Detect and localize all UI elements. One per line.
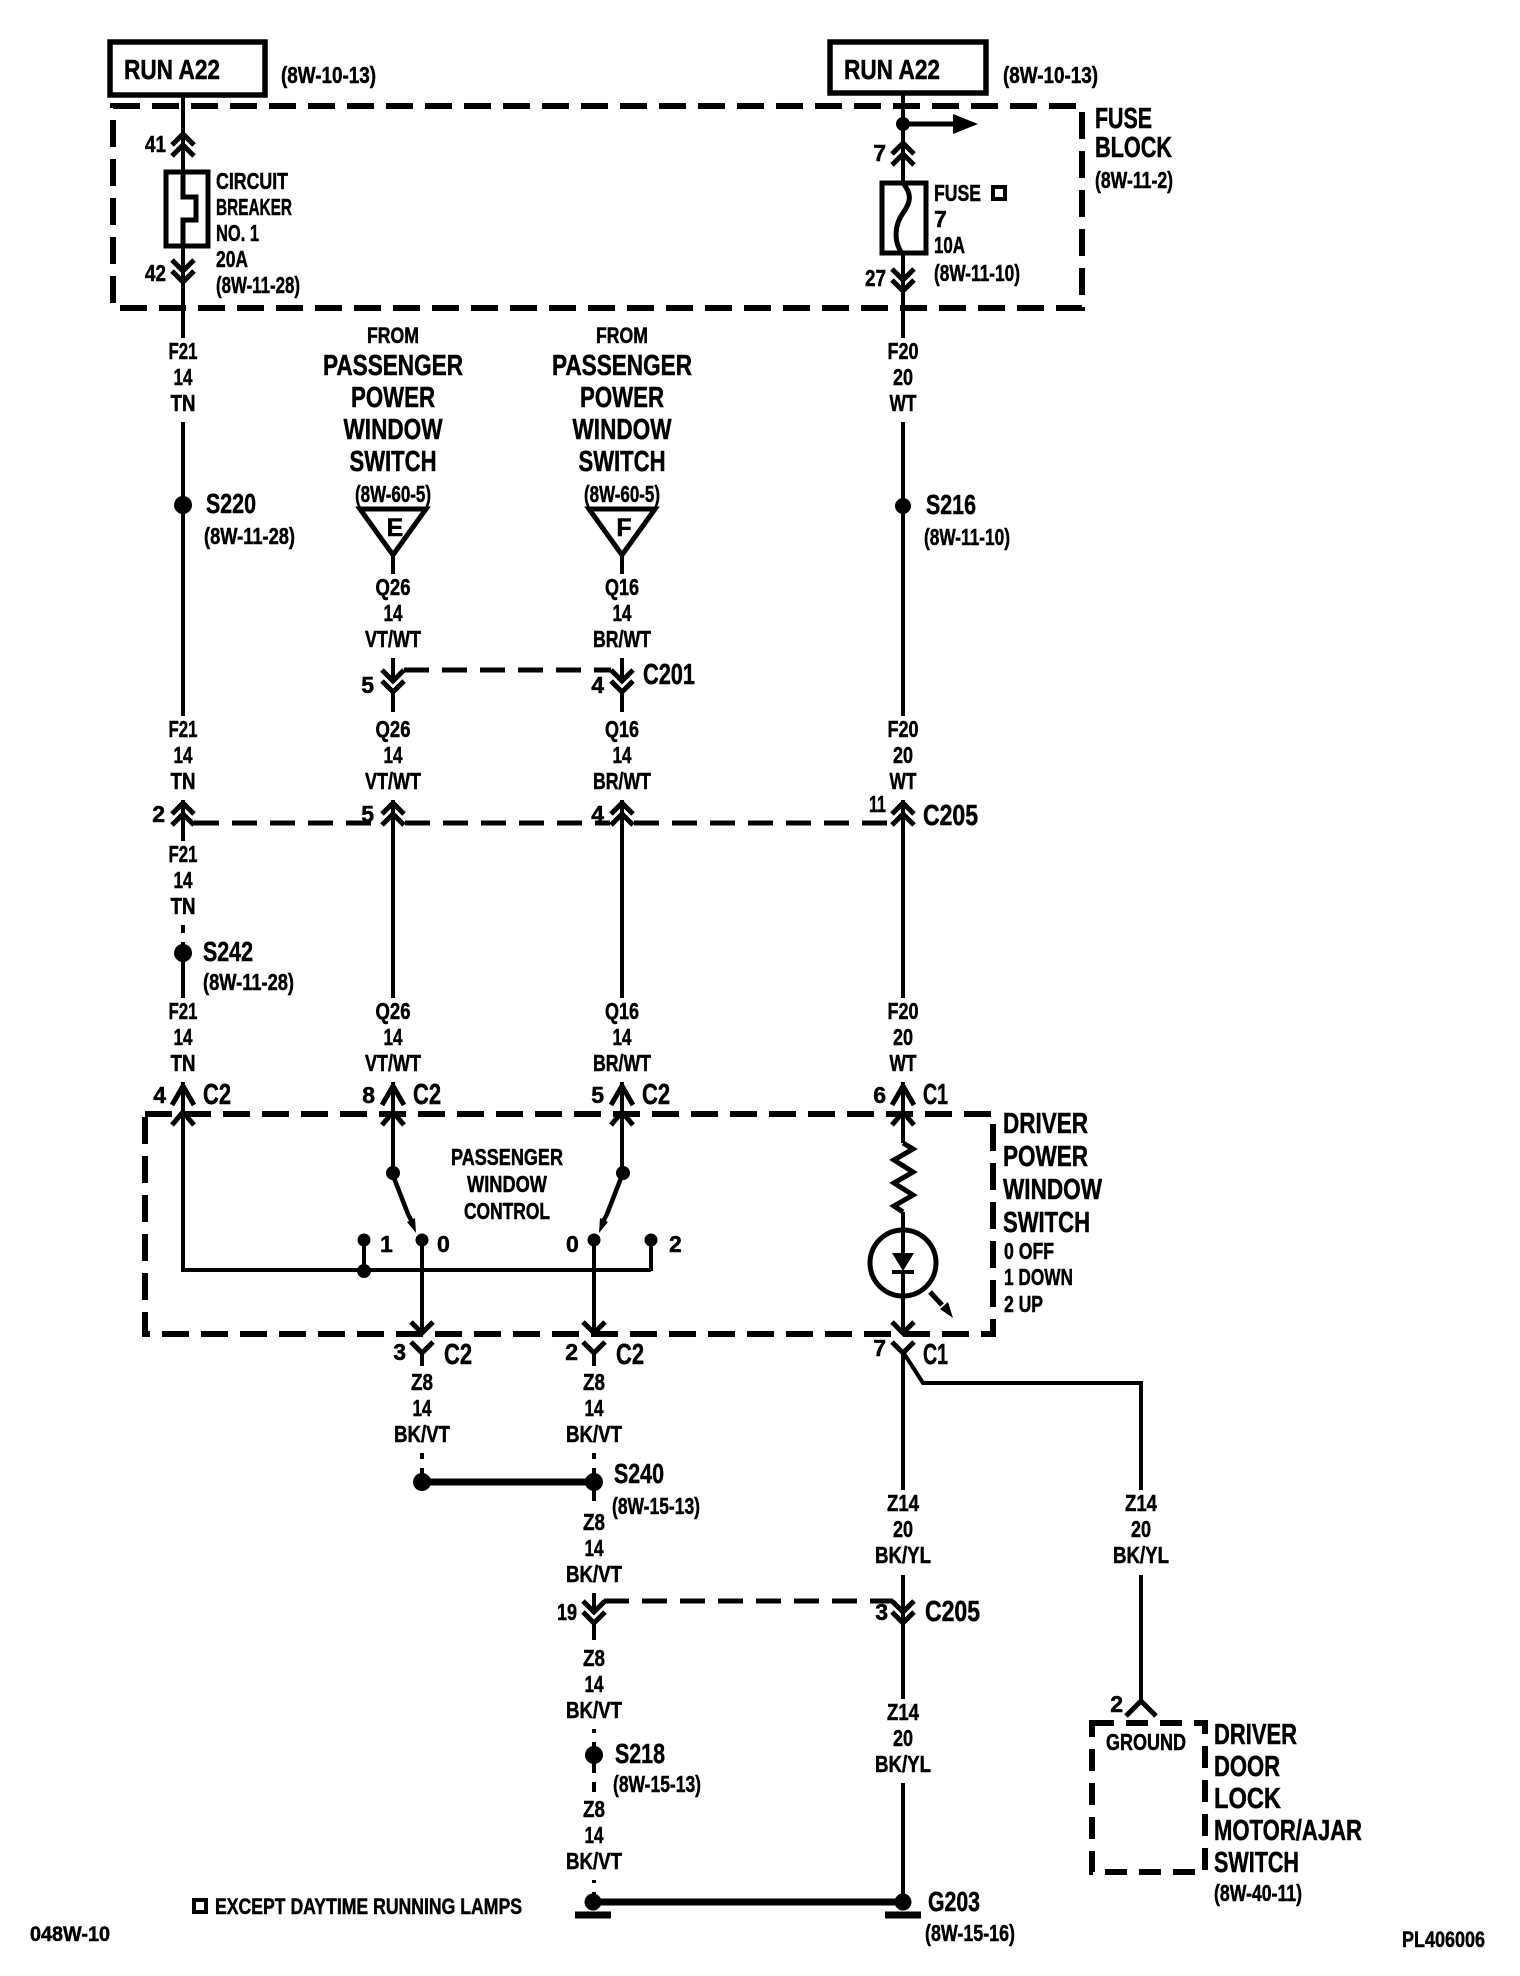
svg-text:C205: C205 — [925, 1596, 980, 1628]
svg-text:WT: WT — [890, 1050, 917, 1076]
svg-text:Z8: Z8 — [583, 1645, 605, 1671]
svg-text:Q16: Q16 — [605, 998, 639, 1024]
svg-text:(8W-11-28): (8W-11-28) — [216, 272, 300, 298]
svg-text:048W-10: 048W-10 — [30, 1923, 110, 1946]
svg-text:F: F — [616, 514, 631, 542]
svg-text:BLOCK: BLOCK — [1095, 132, 1172, 164]
svg-text:GROUND: GROUND — [1106, 1729, 1186, 1755]
svg-text:20A: 20A — [216, 246, 248, 272]
svg-text:BK/YL: BK/YL — [875, 1751, 931, 1777]
svg-text:C205: C205 — [923, 800, 978, 832]
svg-text:FROM: FROM — [596, 323, 648, 348]
svg-text:BK/VT: BK/VT — [566, 1421, 622, 1447]
svg-text:19: 19 — [557, 1599, 577, 1625]
svg-text:Z8: Z8 — [583, 1369, 605, 1395]
svg-text:Q16: Q16 — [605, 574, 639, 600]
svg-text:14: 14 — [174, 1024, 193, 1050]
svg-text:5: 5 — [361, 801, 374, 827]
svg-text:BK/VT: BK/VT — [394, 1421, 450, 1447]
svg-text:LOCK: LOCK — [1214, 1783, 1281, 1815]
svg-text:(8W-40-11): (8W-40-11) — [1214, 1880, 1302, 1906]
svg-text:TN: TN — [171, 390, 196, 416]
svg-text:(8W-11-2): (8W-11-2) — [1095, 167, 1173, 193]
svg-text:14: 14 — [613, 742, 632, 768]
svg-text:PASSENGER: PASSENGER — [323, 350, 463, 382]
svg-text:(8W-11-10): (8W-11-10) — [934, 260, 1020, 286]
svg-text:5: 5 — [361, 672, 374, 698]
svg-text:SWITCH: SWITCH — [1214, 1847, 1299, 1879]
svg-text:SWITCH: SWITCH — [1003, 1207, 1090, 1239]
svg-text:2: 2 — [565, 1339, 578, 1365]
svg-text:14: 14 — [174, 364, 193, 390]
svg-text:Z8: Z8 — [583, 1796, 605, 1822]
svg-text:14: 14 — [613, 1024, 632, 1050]
svg-text:WINDOW: WINDOW — [573, 414, 672, 446]
svg-text:F20: F20 — [888, 998, 919, 1024]
svg-text:8: 8 — [362, 1082, 375, 1108]
svg-text:14: 14 — [384, 742, 403, 768]
svg-text:14: 14 — [413, 1395, 432, 1421]
svg-text:7: 7 — [873, 140, 886, 166]
svg-text:20: 20 — [893, 1024, 913, 1050]
svg-text:CIRCUIT: CIRCUIT — [216, 168, 288, 194]
svg-text:TN: TN — [171, 768, 196, 794]
svg-text:C2: C2 — [203, 1079, 231, 1111]
svg-text:BK/VT: BK/VT — [566, 1561, 622, 1587]
svg-text:SWITCH: SWITCH — [350, 446, 437, 478]
svg-text:SWITCH: SWITCH — [579, 446, 666, 478]
svg-text:BR/WT: BR/WT — [593, 1050, 651, 1076]
svg-text:S216: S216 — [926, 489, 976, 520]
svg-text:2: 2 — [1110, 1691, 1123, 1717]
svg-text:WINDOW: WINDOW — [344, 414, 443, 446]
svg-text:20: 20 — [893, 364, 913, 390]
svg-text:PASSENGER: PASSENGER — [552, 350, 692, 382]
svg-text:POWER: POWER — [1003, 1141, 1088, 1173]
svg-text:BR/WT: BR/WT — [593, 626, 651, 652]
svg-text:BREAKER: BREAKER — [216, 194, 292, 220]
svg-text:DRIVER: DRIVER — [1003, 1108, 1088, 1140]
svg-text:42: 42 — [145, 260, 166, 286]
svg-text:(8W-60-5): (8W-60-5) — [355, 481, 431, 507]
svg-text:TN: TN — [171, 1050, 196, 1076]
svg-text:C1: C1 — [923, 1339, 948, 1371]
svg-text:CONTROL: CONTROL — [464, 1198, 550, 1224]
svg-text:Q26: Q26 — [376, 998, 411, 1024]
svg-text:6: 6 — [873, 1082, 886, 1108]
svg-text:S220: S220 — [206, 488, 256, 519]
svg-text:F21: F21 — [169, 841, 198, 867]
svg-text:F21: F21 — [169, 338, 198, 364]
svg-text:4: 4 — [591, 801, 604, 827]
svg-text:RUN A22: RUN A22 — [124, 54, 220, 85]
svg-text:TN: TN — [171, 893, 196, 919]
svg-text:DOOR: DOOR — [1214, 1751, 1280, 1783]
svg-text:WT: WT — [890, 768, 917, 794]
svg-text:DRIVER: DRIVER — [1214, 1719, 1297, 1751]
svg-text:WINDOW: WINDOW — [1003, 1174, 1102, 1206]
svg-text:7: 7 — [873, 1335, 886, 1361]
svg-text:S242: S242 — [203, 936, 253, 967]
svg-text:POWER: POWER — [351, 382, 435, 414]
svg-text:BK/YL: BK/YL — [875, 1542, 931, 1568]
svg-text:20: 20 — [893, 1725, 913, 1751]
svg-text:2: 2 — [669, 1231, 682, 1257]
svg-text:(8W-15-16): (8W-15-16) — [925, 1920, 1015, 1946]
svg-text:BK/VT: BK/VT — [566, 1697, 622, 1723]
svg-text:G203: G203 — [928, 1886, 980, 1917]
svg-text:BR/WT: BR/WT — [593, 768, 651, 794]
svg-text:14: 14 — [585, 1535, 604, 1561]
svg-text:0 OFF: 0 OFF — [1004, 1238, 1054, 1264]
svg-text:(8W-15-13): (8W-15-13) — [612, 1493, 700, 1519]
svg-text:14: 14 — [613, 600, 632, 626]
svg-text:2 UP: 2 UP — [1004, 1291, 1043, 1317]
svg-text:C2: C2 — [642, 1079, 670, 1111]
svg-text:Q26: Q26 — [376, 574, 411, 600]
svg-text:C1: C1 — [923, 1079, 948, 1111]
svg-text:Z8: Z8 — [583, 1509, 605, 1535]
svg-text:FUSE: FUSE — [934, 180, 981, 206]
svg-text:1 DOWN: 1 DOWN — [1004, 1264, 1073, 1290]
svg-text:FROM: FROM — [367, 323, 419, 348]
svg-text:Z14: Z14 — [887, 1699, 919, 1725]
svg-text:0: 0 — [566, 1231, 579, 1257]
svg-text:VT/WT: VT/WT — [365, 1050, 421, 1076]
svg-text:(8W-11-10): (8W-11-10) — [924, 524, 1010, 550]
svg-text:C2: C2 — [413, 1079, 441, 1111]
svg-text:Q26: Q26 — [376, 716, 411, 742]
svg-text:WT: WT — [890, 390, 917, 416]
svg-text:14: 14 — [174, 867, 193, 893]
svg-text:MOTOR/AJAR: MOTOR/AJAR — [1214, 1815, 1362, 1847]
svg-text:7: 7 — [934, 206, 947, 232]
svg-text:NO. 1: NO. 1 — [216, 220, 259, 246]
svg-text:3: 3 — [393, 1339, 406, 1365]
svg-text:FUSE: FUSE — [1095, 103, 1152, 135]
svg-text:F20: F20 — [888, 716, 919, 742]
svg-text:PL406006: PL406006 — [1402, 1927, 1485, 1952]
svg-text:20: 20 — [1131, 1516, 1151, 1542]
svg-text:EXCEPT DAYTIME RUNNING LAMPS: EXCEPT DAYTIME RUNNING LAMPS — [215, 1894, 522, 1919]
svg-text:27: 27 — [865, 265, 886, 291]
svg-text:(8W-10-13): (8W-10-13) — [281, 62, 376, 88]
svg-text:Q16: Q16 — [605, 716, 639, 742]
svg-text:14: 14 — [384, 600, 403, 626]
svg-text:RUN A22: RUN A22 — [844, 54, 940, 85]
svg-text:41: 41 — [145, 131, 166, 157]
svg-text:1: 1 — [380, 1231, 393, 1257]
svg-text:F21: F21 — [169, 716, 198, 742]
svg-text:F20: F20 — [888, 338, 919, 364]
svg-text:4: 4 — [591, 672, 604, 698]
svg-text:E: E — [387, 514, 404, 542]
svg-text:C2: C2 — [616, 1339, 644, 1371]
svg-text:BK/VT: BK/VT — [566, 1848, 622, 1874]
svg-text:20: 20 — [893, 1516, 913, 1542]
svg-text:VT/WT: VT/WT — [365, 768, 421, 794]
svg-text:5: 5 — [591, 1082, 604, 1108]
svg-text:(8W-10-13): (8W-10-13) — [1003, 62, 1098, 88]
svg-text:F21: F21 — [169, 998, 198, 1024]
svg-text:20: 20 — [893, 742, 913, 768]
svg-text:Z14: Z14 — [887, 1490, 919, 1516]
svg-text:2: 2 — [152, 801, 165, 827]
svg-text:0: 0 — [437, 1231, 450, 1257]
svg-text:4: 4 — [153, 1082, 166, 1108]
svg-text:C2: C2 — [444, 1339, 472, 1371]
svg-text:Z8: Z8 — [411, 1369, 433, 1395]
svg-text:S218: S218 — [615, 1738, 665, 1769]
svg-text:S240: S240 — [614, 1458, 664, 1489]
svg-text:(8W-11-28): (8W-11-28) — [204, 523, 295, 549]
svg-text:(8W-15-13): (8W-15-13) — [613, 1771, 701, 1797]
svg-text:14: 14 — [174, 742, 193, 768]
svg-text:14: 14 — [585, 1822, 604, 1848]
svg-text:(8W-60-5): (8W-60-5) — [584, 481, 660, 507]
svg-text:14: 14 — [585, 1671, 604, 1697]
svg-text:(8W-11-28): (8W-11-28) — [203, 969, 294, 995]
svg-text:PASSENGER: PASSENGER — [451, 1144, 563, 1170]
svg-text:10A: 10A — [934, 232, 965, 258]
svg-text:3: 3 — [875, 1599, 888, 1625]
svg-text:Z14: Z14 — [1125, 1490, 1157, 1516]
svg-text:11: 11 — [869, 791, 886, 817]
svg-text:VT/WT: VT/WT — [365, 626, 421, 652]
svg-text:14: 14 — [585, 1395, 604, 1421]
svg-text:WINDOW: WINDOW — [467, 1171, 547, 1197]
svg-text:POWER: POWER — [580, 382, 664, 414]
svg-text:C201: C201 — [643, 659, 695, 691]
svg-text:14: 14 — [384, 1024, 403, 1050]
svg-text:BK/YL: BK/YL — [1113, 1542, 1169, 1568]
